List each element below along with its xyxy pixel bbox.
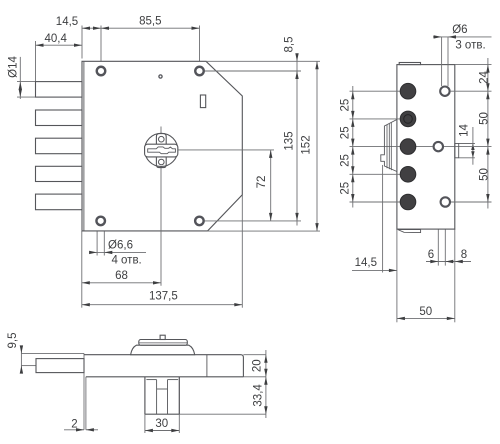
svg-text:50: 50 xyxy=(419,306,432,318)
svg-text:8,5: 8,5 xyxy=(284,37,296,53)
svg-text:25: 25 xyxy=(339,154,351,167)
svg-text:50: 50 xyxy=(479,168,491,181)
svg-text:24: 24 xyxy=(479,71,491,84)
svg-text:30: 30 xyxy=(155,418,168,430)
svg-text:85,5: 85,5 xyxy=(139,16,161,28)
svg-text:68: 68 xyxy=(115,270,128,282)
svg-text:152: 152 xyxy=(301,135,313,154)
svg-text:137,5: 137,5 xyxy=(149,290,178,302)
svg-text:25: 25 xyxy=(339,99,351,112)
svg-text:40,4: 40,4 xyxy=(45,33,68,45)
svg-text:14,5: 14,5 xyxy=(56,16,78,28)
svg-text:14: 14 xyxy=(459,124,471,137)
svg-text:6: 6 xyxy=(428,249,434,261)
svg-text:8: 8 xyxy=(461,249,467,261)
svg-text:Ø6: Ø6 xyxy=(452,24,467,36)
svg-text:14,5: 14,5 xyxy=(355,257,377,269)
svg-text:Ø14: Ø14 xyxy=(8,56,20,78)
svg-text:25: 25 xyxy=(339,126,351,139)
svg-text:135: 135 xyxy=(284,131,296,150)
svg-text:33,4: 33,4 xyxy=(253,384,265,407)
svg-text:3 отв.: 3 отв. xyxy=(455,39,485,51)
svg-text:25: 25 xyxy=(339,182,351,195)
svg-text:Ø6,6: Ø6,6 xyxy=(108,239,133,251)
svg-text:72: 72 xyxy=(256,176,268,189)
svg-text:9,5: 9,5 xyxy=(7,333,19,349)
svg-text:50: 50 xyxy=(479,112,491,125)
svg-text:4 отв.: 4 отв. xyxy=(111,255,141,267)
svg-text:2: 2 xyxy=(71,419,77,431)
svg-text:20: 20 xyxy=(252,359,264,372)
